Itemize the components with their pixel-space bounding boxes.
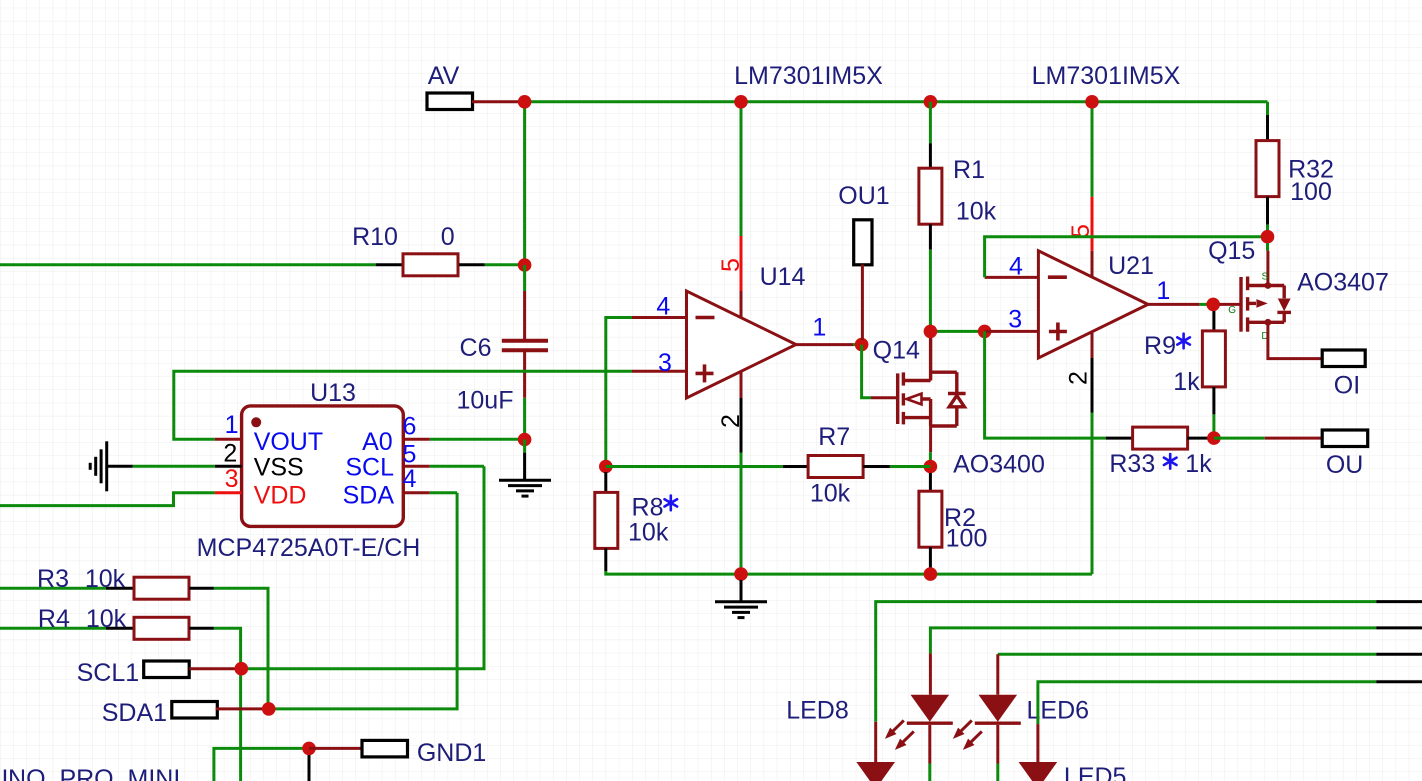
LED5 anode lead: [1036, 724, 1039, 762]
svg-text:Q14: Q14: [873, 337, 920, 365]
junction ground U14 pin2: [734, 567, 748, 581]
resistor R32: [1256, 141, 1279, 197]
ground (rail): [715, 602, 767, 618]
wire to C6 top: [523, 265, 526, 291]
wire R1 node to U21 pin3: [930, 330, 984, 333]
resistor R2: [919, 491, 942, 547]
LED8 anode lead: [929, 653, 932, 694]
star R8: [665, 496, 678, 511]
svg-text:Q15: Q15: [1208, 237, 1255, 265]
wire R32 to Q15 source: [1266, 225, 1269, 237]
C6 top lead: [523, 291, 526, 339]
R10 right lead: [459, 263, 485, 266]
wire VDD to left edge: [0, 493, 215, 506]
junction SDA1/R3: [262, 702, 276, 716]
wire SDA right: [430, 491, 457, 494]
junction ground R2: [924, 567, 938, 581]
ground (C6/A0): [499, 480, 551, 496]
wire U14 pin4 down to R8 node: [606, 318, 632, 467]
svg-text:4: 4: [656, 293, 670, 321]
svg-text:OU: OU: [1326, 451, 1364, 479]
junction R8/R7/U14pin4: [599, 460, 613, 474]
transistor Q14 AO3400: [898, 330, 966, 426]
svg-text:LED5: LED5: [1064, 763, 1127, 781]
wire U21 pin4 feedback to Q15 source: [985, 237, 1268, 278]
svg-text:R8: R8: [632, 494, 664, 522]
wire Q15 source stub: [1266, 243, 1269, 251]
junction R10/C6: [518, 258, 532, 272]
wire Q14 source to node: [929, 452, 932, 466]
resistor R7: [808, 456, 863, 478]
svg-text:100: 100: [1290, 178, 1332, 206]
R32 bottom lead: [1266, 197, 1269, 225]
svg-text:3: 3: [1008, 306, 1022, 334]
svg-text:SCL1: SCL1: [77, 659, 140, 687]
pin 1 of U14: [796, 343, 853, 346]
svg-text:R10: R10: [352, 223, 398, 251]
wire SCL down to SCL1: [241, 466, 484, 668]
pin 5 of U14: [740, 291, 743, 319]
LED7 anode lead: [874, 722, 877, 762]
pin 4 of U14: [632, 316, 687, 319]
wire LED8 cathode: [928, 764, 931, 781]
svg-text:A0: A0: [362, 428, 393, 456]
C6 bottom lead: [523, 352, 526, 398]
svg-text:MCP4725A0T-E/CH: MCP4725A0T-E/CH: [197, 534, 421, 562]
wire LED5 net: [1038, 682, 1376, 724]
junction U21 out/R9/Q15 gate: [1206, 298, 1220, 312]
pin 2 of U14: [740, 398, 743, 453]
transistor Q15 AO3407: [1241, 277, 1291, 332]
resistor R9: [1202, 331, 1225, 387]
svg-text:R3: R3: [37, 565, 69, 593]
wire pin3 node to R33: [985, 331, 1106, 438]
R4 left lead: [106, 627, 134, 630]
junction GND1: [302, 742, 316, 756]
svg-text:4: 4: [1009, 253, 1023, 281]
svg-text:AV: AV: [428, 62, 460, 90]
svg-text:SDA: SDA: [343, 482, 395, 510]
port OU1: [854, 220, 872, 265]
op-amp U21 LM7301IM5X: [1038, 251, 1148, 358]
svg-text:10k: 10k: [956, 198, 997, 226]
pin G of Q14: [871, 396, 896, 399]
svg-text:SDA1: SDA1: [102, 699, 167, 727]
R8 top lead: [604, 472, 607, 493]
op-amp U14 LM7301IM5X: [687, 291, 797, 398]
wire U14 pin5 green: [740, 102, 743, 236]
wire R3 to SDA1 node: [214, 588, 268, 709]
lead LED8 net right: [1376, 626, 1422, 629]
resistor R4: [134, 617, 189, 639]
port OU: [1322, 430, 1368, 447]
junction R1 top: [924, 95, 938, 109]
svg-text:U21: U21: [1108, 252, 1154, 280]
pin 5 of U13: [403, 465, 430, 468]
lead LED5 net right: [1376, 680, 1422, 683]
port OI: [1322, 350, 1365, 367]
wire OU port stub: [1265, 437, 1322, 440]
pin 5 of U21: [1091, 251, 1094, 278]
svg-text:OU1: OU1: [838, 182, 889, 210]
LED8 cathode lead: [928, 725, 931, 764]
svg-text:10uF: 10uF: [457, 387, 514, 415]
resistor R3: [134, 577, 189, 599]
svg-text:LM7301IM5X: LM7301IM5X: [1032, 62, 1181, 90]
wire R4 left: [0, 627, 106, 630]
R9 bottom lead: [1212, 387, 1215, 414]
svg-text:R7: R7: [818, 423, 850, 451]
wire SCL right: [430, 465, 484, 468]
svg-text:2: 2: [1065, 371, 1093, 385]
pin 3 of U21: [985, 330, 1039, 333]
wire LED6 cathode: [996, 764, 999, 781]
svg-text:AO3400: AO3400: [953, 451, 1045, 479]
R2 top lead: [929, 473, 932, 491]
svg-text:2: 2: [223, 440, 237, 468]
svg-text:100: 100: [946, 525, 988, 553]
junction U14 pin5: [734, 95, 748, 109]
pin 4 of U13: [403, 491, 430, 494]
star R33: [1164, 454, 1177, 469]
svg-text:10k: 10k: [86, 605, 127, 633]
port AV: [427, 93, 473, 110]
svg-text:2: 2: [717, 414, 745, 428]
svg-text:5: 5: [717, 258, 745, 272]
ground lead: [523, 453, 526, 481]
wire to Q14 gate: [862, 345, 871, 398]
ground (VSS): [90, 441, 107, 491]
junction R33/R9/OU: [1207, 431, 1221, 445]
svg-text:R4: R4: [38, 605, 70, 633]
svg-text:3: 3: [225, 465, 239, 493]
svg-text:U13: U13: [310, 379, 356, 407]
wire R4 to SCL1 node: [214, 628, 241, 781]
wire R10 to AV node: [485, 263, 525, 266]
port GND1: [362, 740, 408, 757]
wire SCL1 stub: [189, 667, 241, 670]
svg-text:1: 1: [812, 314, 826, 342]
svg-text:1k: 1k: [1185, 450, 1212, 478]
svg-text:VDD: VDD: [254, 482, 307, 510]
svg-text:LM7301IM5X: LM7301IM5X: [734, 62, 883, 90]
port SDA1: [172, 702, 218, 719]
junction R1/Q14 drain: [924, 325, 938, 339]
R1 bottom lead: [929, 224, 932, 250]
LED LED8: [911, 695, 950, 722]
svg-text:LED8: LED8: [786, 697, 849, 725]
lead LED6 net right: [1376, 653, 1422, 656]
wire R1 to Q14 drain node: [929, 250, 932, 332]
junction Q14/R7/R2: [924, 460, 938, 474]
svg-text:LED6: LED6: [1027, 697, 1090, 725]
svg-text:VSS: VSS: [254, 454, 304, 482]
pin 6 of U13: [403, 438, 430, 441]
wire U14 pin5 red segment: [740, 236, 743, 291]
svg-text:1: 1: [1156, 277, 1170, 305]
R33 left lead: [1106, 437, 1133, 440]
wire LED7 net: [876, 602, 1376, 722]
R3 right lead: [189, 587, 214, 590]
resistor R1: [919, 168, 942, 224]
wire R7 to Q14 node: [890, 465, 931, 468]
svg-text:0: 0: [441, 223, 455, 251]
svg-text:SCL: SCL: [345, 454, 394, 482]
svg-text:VOUT: VOUT: [254, 428, 323, 456]
R7 left lead: [783, 465, 808, 468]
pin 2 of U21: [1091, 358, 1094, 413]
svg-text:R9: R9: [1144, 332, 1176, 360]
svg-text:10k: 10k: [85, 565, 126, 593]
svg-text:10k: 10k: [810, 480, 851, 508]
svg-text:1k: 1k: [1173, 368, 1200, 396]
resistor R8: [595, 492, 618, 548]
svg-text:10k: 10k: [628, 519, 669, 547]
pin 1 of U13: [215, 438, 242, 441]
junction U14 out/Q14 gate: [855, 338, 869, 352]
LED LED6: [979, 695, 1018, 722]
svg-text:GND1: GND1: [417, 739, 486, 767]
pin 3 of U14: [632, 370, 687, 373]
svg-text:1: 1: [225, 411, 239, 439]
wire A0 to C6 node: [430, 438, 525, 441]
wire Q15 drain to OI: [1268, 322, 1322, 358]
wire AV to R10 node: [523, 102, 526, 265]
wire GND1 stub: [309, 747, 362, 750]
wire R9 to R33 node: [1212, 414, 1215, 438]
svg-text:S: S: [1261, 272, 1268, 283]
LED LED7 (bottom left): [856, 762, 895, 781]
R9 top lead: [1212, 311, 1215, 331]
pin 1 of U21: [1148, 303, 1199, 306]
R8 bottom lead: [604, 548, 607, 571]
pin 2 of U13: [215, 465, 242, 468]
lead LED7 net right: [1376, 600, 1422, 603]
R32 top lead: [1266, 115, 1269, 140]
wire ground rail: [606, 571, 1092, 574]
wire U21 pin2 to ground rail: [1091, 413, 1094, 575]
R3 left lead: [106, 587, 134, 590]
svg-text:6: 6: [402, 413, 416, 441]
wire VOUT to U14 pin3: [174, 371, 632, 439]
junction SCL1/R4: [235, 662, 249, 676]
junction R32/Q15 source/feedback: [1261, 230, 1275, 244]
junction U21 pin3/R33: [978, 325, 992, 339]
svg-text:3: 3: [658, 349, 672, 377]
wire AV to R1: [929, 102, 932, 143]
wire GND1 left down: [214, 748, 309, 781]
svg-text:R1: R1: [953, 156, 985, 184]
R7 right lead: [863, 465, 890, 468]
capacitor C6: [502, 339, 548, 343]
wire R33 node to OU: [1214, 437, 1265, 440]
svg-text:4: 4: [402, 465, 416, 493]
wire LED8 net: [930, 628, 1376, 654]
wire U21 out stub: [1199, 303, 1207, 306]
wire LED6 net: [998, 653, 1376, 656]
resistor R10: [403, 254, 458, 276]
wire U21 pin5 red segment: [1091, 197, 1094, 251]
LED6 anode lead: [996, 654, 999, 695]
wire to ground stub: [523, 440, 526, 453]
R33 right lead: [1187, 437, 1210, 440]
pin G of Q15: [1219, 303, 1240, 306]
wire AV rail horizontal: [525, 100, 1268, 103]
pin 2 of U14 inner: [740, 371, 743, 398]
star R9: [1177, 334, 1190, 349]
LED LED5: [1019, 762, 1058, 781]
wire OU1 stub: [861, 265, 864, 341]
wire U14 pin1 stub: [853, 343, 862, 346]
svg-text:OI: OI: [1334, 372, 1360, 400]
Q15 source lead: [1266, 251, 1269, 286]
pin 3 of U13: [215, 491, 242, 494]
LED6 cathode lead: [996, 725, 999, 764]
wire R3 left: [0, 587, 106, 590]
svg-text:U14: U14: [760, 263, 806, 291]
svg-text:C6: C6: [460, 334, 492, 362]
junction AV/R10: [518, 95, 532, 109]
wire R8 node to R7: [606, 465, 783, 468]
svg-text:G: G: [1228, 305, 1236, 316]
ground lead: [740, 580, 743, 602]
wire AV to R32: [1266, 102, 1269, 115]
wire to R10 left: [0, 263, 376, 266]
wire SDA1 stub: [216, 707, 269, 710]
junction U21 pin5: [1085, 95, 1099, 109]
VSS ground lead: [106, 465, 133, 468]
svg-text:UNO_PRO_MINI: UNO_PRO_MINI: [0, 765, 180, 781]
svg-text:AO3407: AO3407: [1297, 269, 1389, 297]
R1 top lead: [929, 143, 932, 169]
IC U13 MCP4725A0T-E/CH: [242, 406, 404, 527]
R10 left lead: [376, 263, 402, 266]
svg-text:R33: R33: [1109, 450, 1155, 478]
wire AV port stub: [472, 100, 519, 103]
junction A0/C6/GND: [518, 433, 532, 447]
R4 right lead: [189, 627, 214, 630]
wire SDA down to SDA1: [269, 493, 457, 709]
wire U21 pin5 green: [1091, 102, 1094, 197]
wire VSS: [133, 465, 215, 468]
wire U14 pin2 to ground rail: [740, 453, 743, 575]
pin 2 of U21 inner: [1091, 332, 1094, 358]
resistor R33: [1133, 427, 1188, 449]
port SCL1: [144, 661, 190, 678]
pin 4 of U21: [985, 276, 1039, 279]
wire C6 to A0 node: [523, 398, 526, 440]
Q14 source lead: [929, 426, 932, 452]
pin lead below GND1: [308, 755, 311, 781]
R2 bottom lead: [929, 547, 932, 569]
